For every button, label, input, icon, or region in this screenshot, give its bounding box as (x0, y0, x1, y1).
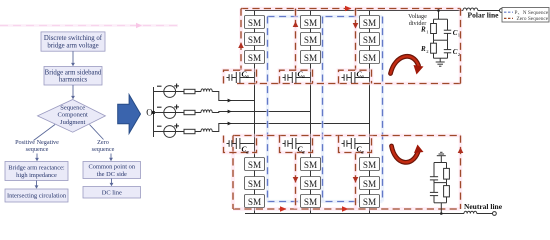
zero sequence path right vertical lower (459, 136, 463, 210)
legend box (502, 8, 549, 23)
svg-text:SM: SM (304, 18, 317, 28)
P N sequence path top horizontal (268, 15, 383, 18)
zero sequence path left vertical lower (231, 136, 235, 210)
zero seq arrow down leg2 lower (293, 177, 299, 183)
zero sequence path top bus line (241, 7, 461, 11)
P N sequence path vertical right of leg1 (266, 17, 269, 202)
zero seq arrow bottom line 1 (280, 206, 287, 212)
zero sequence path vertical leg2 lower (294, 153, 298, 210)
inductor Lb (195, 110, 212, 113)
SM module leg1 lower 1 (245, 158, 265, 171)
wire: source common vertical (153, 87, 155, 137)
flow arrow 1 (71, 51, 75, 66)
svg-text:sequence: sequence (26, 146, 49, 153)
inductor La (195, 89, 212, 92)
branch line left (34, 125, 56, 141)
SM module leg2 lower 3 (301, 195, 321, 208)
label: Voltage divider (408, 13, 427, 27)
zero sequence path vertical leg3 upper (354, 9, 358, 71)
zero seq arrow down leg3 (353, 23, 359, 29)
svg-text:SM: SM (248, 179, 261, 189)
flow box: Bridge arm reactance high impedance (5, 162, 68, 181)
resistor R2 (420, 40, 436, 58)
zero sequence box upper cap leg1 (224, 70, 257, 83)
svg-text:Zero Sequence: Zero Sequence (517, 16, 549, 22)
svg-text:Judgment: Judgment (60, 119, 85, 126)
svg-text:SM: SM (248, 18, 261, 28)
zero seq arrow left vertical (238, 42, 244, 48)
circulation arrow upper (391, 56, 424, 74)
zero sequence box upper cap leg2 (280, 70, 313, 83)
zero sequence path mid line upper (237, 82, 461, 86)
flow box: Discrete switching of bridge arm voltage (41, 32, 105, 51)
wire: lower divider stem (440, 203, 443, 215)
flow box: DC line (83, 187, 141, 199)
resistor lower divider lower R (444, 183, 450, 203)
SM module leg3 upper 1 (360, 16, 380, 29)
resistor R1 (420, 19, 436, 40)
arrow on phase c wire (228, 122, 232, 126)
svg-text:SM: SM (363, 179, 376, 189)
SM module leg2 upper 2 (301, 33, 321, 46)
svg-text:bridge arm voltage: bridge arm voltage (47, 42, 98, 49)
capacitor Ca lower arm leg3 (342, 138, 370, 156)
capacitor C1 (444, 19, 461, 40)
svg-text:Common point on: Common point on (89, 164, 136, 171)
svg-text:Voltage: Voltage (408, 13, 427, 20)
zero seq arrow bottom line 2 (342, 206, 349, 212)
svg-text:Sequence: Sequence (60, 104, 85, 111)
label: Zero sequence (92, 139, 115, 153)
flow arrow right branch (109, 154, 113, 162)
SM module leg2 lower 1 (301, 158, 321, 171)
capacitor Ca lower arm leg2 (283, 138, 311, 156)
svg-text:DC line: DC line (102, 189, 122, 196)
zero sequence box lower cap leg1 (224, 136, 257, 153)
SM module leg2 upper 1 (301, 16, 321, 29)
wire: phase a (212, 92, 254, 101)
wire: lower divider top bar (434, 162, 447, 164)
SM module leg2 upper 3 (301, 51, 321, 64)
zero seq arrow top line (345, 6, 352, 12)
zero sequence path right vertical upper (459, 9, 463, 84)
svg-text:P、N Sequence: P、N Sequence (515, 10, 549, 16)
circulation arrow lower (392, 145, 424, 163)
svg-text:harmonics: harmonics (59, 77, 88, 84)
wire: divider mid bar (434, 39, 448, 41)
bus: top DC bus (245, 10, 463, 12)
svg-text:R: R (420, 45, 426, 53)
capacitor lower divider upper C (430, 163, 438, 183)
label: Positive Negative sequence (15, 139, 59, 153)
svg-text:Component: Component (58, 112, 89, 119)
zero seq arrow up leg2 (293, 21, 299, 27)
zero sequence path vertical leg3 lower (354, 153, 358, 210)
capacitor Ca upper arm leg1 (227, 69, 255, 83)
SM module leg2 lower 2 (301, 177, 321, 190)
svg-text:SM: SM (248, 35, 261, 45)
flow arrow 2 (71, 85, 75, 99)
svg-text:SM: SM (248, 197, 261, 207)
P N sequence path bottom horizontal (268, 200, 383, 203)
wire: lower divider mid bar (434, 182, 447, 184)
svg-text:SM: SM (363, 53, 376, 63)
svg-text:SM: SM (304, 179, 317, 189)
wire: phase b (212, 112, 310, 113)
svg-text:Neutral line: Neutral line (464, 202, 503, 211)
wire: divider top bar (434, 18, 448, 20)
wire: lower divider bottom bar (434, 202, 447, 204)
SM module leg1 upper 3 (245, 51, 265, 64)
svg-text:SM: SM (363, 197, 376, 207)
flow box: Common point on the DC side (83, 162, 141, 179)
capacitor Ca lower arm leg1 (227, 138, 255, 156)
wire: phase leg 1 (254, 11, 256, 214)
svg-text:SM: SM (304, 160, 317, 170)
zero sequence box upper cap leg3 (339, 70, 372, 83)
svg-text:high impedance: high impedance (16, 172, 57, 179)
svg-text:R: R (420, 26, 426, 34)
capacitor Ca upper arm leg3 (342, 69, 370, 83)
flow arrow right 2 (110, 179, 114, 187)
svg-text:SM: SM (363, 18, 376, 28)
flow box: Intersecting circulation (5, 189, 68, 202)
svg-text:Bridge arm reactance:: Bridge arm reactance: (8, 165, 65, 172)
zero sequence path mid line lower (233, 134, 461, 138)
SM module leg1 lower 3 (245, 195, 265, 208)
AC source Vc (154, 124, 185, 138)
svg-text:SM: SM (363, 35, 376, 45)
zero sequence path left vertical upper (239, 9, 243, 71)
svg-text:Polar line: Polar line (468, 11, 500, 20)
capacitor C2 (444, 40, 461, 58)
svg-text:sequence: sequence (92, 146, 115, 153)
flow box: Bridge arm sideband harmonics (44, 67, 102, 86)
resistor lower divider upper R (444, 163, 450, 183)
bus: bottom DC bus (245, 213, 464, 215)
junction node O (152, 111, 155, 114)
svg-text:SM: SM (304, 53, 317, 63)
neutral line inductor and terminal (464, 211, 496, 215)
SM module leg3 lower 2 (360, 177, 380, 190)
SM module leg3 lower 3 (360, 195, 380, 208)
resistor Rb (184, 110, 195, 114)
inductor Lc (195, 129, 212, 132)
ground upper divider (436, 58, 445, 66)
svg-text:Bridge arm sideband: Bridge arm sideband (45, 69, 102, 76)
svg-text:SM: SM (304, 35, 317, 45)
zero sequence path vertical leg2 upper (294, 9, 298, 71)
arrow on phase a wire (228, 99, 232, 103)
decision diamond: Sequence Component Judgment (38, 100, 106, 133)
capacitor Ca upper arm leg2 (283, 69, 311, 83)
P N sequence path vertical right of leg3 (381, 17, 384, 202)
wire: divider bottom bar (434, 57, 448, 59)
zero sequence box lower cap leg2 (280, 136, 313, 153)
svg-text:SM: SM (248, 160, 261, 170)
arrow on phase b wire (228, 110, 232, 114)
big blue arrow (118, 95, 141, 134)
SM module leg3 lower 1 (360, 158, 380, 171)
AC source Va (154, 84, 185, 98)
faded ghost dashed line (0, 23, 178, 29)
svg-text:Intersecting circulation: Intersecting circulation (7, 193, 67, 200)
wire: divider branch from top bus (437, 9, 440, 19)
wire: phase leg 2 (310, 11, 312, 214)
SM module leg1 upper 2 (245, 33, 265, 46)
svg-text:SM: SM (248, 53, 261, 63)
zero sequence box lower cap leg3 (339, 136, 372, 153)
flow arrow left branch (35, 154, 39, 162)
wire: phase c (212, 124, 369, 132)
branch line right (90, 125, 104, 140)
svg-text:SM: SM (304, 197, 317, 207)
ground lower divider (437, 152, 446, 162)
svg-text:the DC side: the DC side (97, 171, 127, 178)
wire: phase leg 3 (369, 11, 371, 214)
SM module leg1 lower 2 (245, 177, 265, 190)
flow arrow left 2 (35, 181, 39, 189)
AC source Vb (154, 105, 185, 119)
resistor Ra (184, 89, 195, 93)
zero seq arrow right vertical up (458, 147, 464, 153)
SM module leg1 upper 1 (245, 16, 265, 29)
SM module leg3 upper 3 (360, 51, 380, 64)
zero seq arrow down leg3 lower (353, 177, 359, 183)
SM module leg3 upper 2 (360, 33, 380, 46)
zero sequence path bottom line (233, 207, 461, 211)
polar line inductor and terminal (463, 8, 503, 12)
svg-text:SM: SM (363, 160, 376, 170)
capacitor lower divider lower C (430, 183, 438, 203)
P N sequence path vertical right of leg2 (321, 17, 324, 202)
resistor Rc (184, 129, 195, 133)
svg-text:Discrete switching of: Discrete switching of (44, 35, 103, 42)
